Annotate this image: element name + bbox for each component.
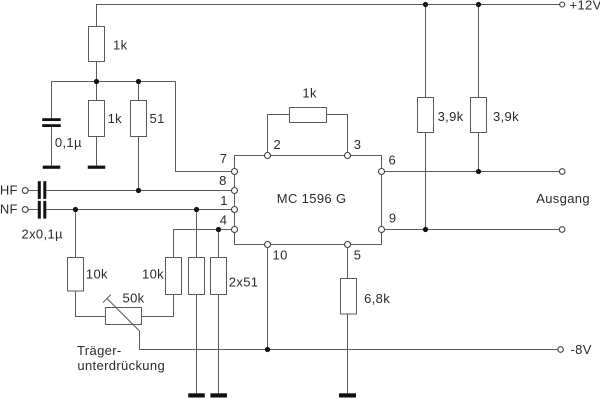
junction dot rail R12 — [476, 2, 481, 7]
svg-text:Ausgang: Ausgang — [536, 191, 590, 206]
svg-text:HF: HF — [0, 182, 18, 197]
wire R6 to ground — [196, 295, 198, 394]
svg-text:NF: NF — [0, 201, 18, 216]
resistor R7 51 — [211, 258, 227, 295]
svg-text:50k: 50k — [123, 291, 145, 306]
svg-text:51: 51 — [150, 111, 165, 126]
wire C3 to pin 1 — [46, 209, 234, 211]
wire C1 to ground — [51, 127, 53, 166]
terminal output pin6 circle — [559, 169, 565, 175]
wire pin 2 riser — [268, 115, 290, 156]
svg-text:-8V: -8V — [571, 342, 592, 357]
wire HF terminal to C2 — [28, 190, 38, 192]
junction dot bias R3 — [136, 79, 141, 84]
wire R4 to pot left — [76, 291, 106, 317]
svg-text:5: 5 — [354, 248, 362, 263]
ground bar under R2 — [88, 166, 106, 169]
svg-text:0,1µ: 0,1µ — [55, 135, 82, 150]
wire pin4 node to R7 — [218, 230, 220, 258]
resistor R11 3,9k — [418, 98, 434, 133]
wire -8V rail — [140, 331, 558, 350]
capacitor C3 coupling — [38, 201, 47, 219]
ground bar under R10 — [339, 393, 356, 397]
resistor R3 51 — [131, 101, 147, 137]
wire bias to C1 — [51, 82, 53, 119]
resistor R10 6,8k — [341, 279, 357, 315]
resistor R5 10k — [166, 258, 182, 295]
svg-text:1k: 1k — [302, 86, 317, 101]
terminal HF circle — [22, 188, 28, 194]
wire pin 9 output line — [382, 229, 560, 231]
junction dot rail R11 — [423, 2, 428, 7]
wire bias to R2 — [96, 82, 98, 102]
junction dot pin6 R12 — [476, 169, 481, 174]
svg-text:+12V: +12V — [570, 0, 600, 13]
wire R10 to ground — [347, 314, 349, 393]
svg-text:3: 3 — [354, 137, 362, 152]
wire R12 to pin 6 line — [478, 133, 480, 172]
wire R3 to HF line — [138, 137, 140, 191]
potentiometer P1 50k body — [106, 308, 142, 325]
wire rail to R12 — [478, 5, 480, 98]
capacitor C1 0,1µ — [42, 118, 61, 127]
svg-text:6: 6 — [389, 153, 397, 168]
pin 4 circle — [232, 227, 238, 233]
wire R2 to ground — [96, 137, 98, 166]
terminal NF circle — [22, 207, 28, 213]
svg-text:2: 2 — [274, 137, 282, 152]
pin 2 circle — [265, 153, 271, 159]
wire rail to R11 — [425, 5, 427, 98]
junction dot NF R6 — [194, 207, 199, 212]
wire pin 10 to -8V rail — [267, 245, 269, 350]
svg-text:7: 7 — [220, 151, 228, 166]
junction dot pin4 R7 — [216, 227, 221, 232]
svg-text:3,9k: 3,9k — [438, 109, 464, 124]
wire R7 to ground — [218, 295, 220, 394]
svg-text:10: 10 — [273, 248, 288, 263]
wire R1 to bias node — [96, 62, 98, 82]
svg-text:6,8k: 6,8k — [364, 291, 390, 306]
pin 6 circle — [379, 169, 385, 175]
svg-text:Träger-: Träger- — [77, 343, 122, 358]
wire pot right to R5 — [142, 295, 174, 317]
svg-text:1: 1 — [220, 193, 228, 208]
pin 8 circle — [232, 188, 238, 194]
wire bias row — [52, 81, 176, 83]
wire +12V rail — [97, 5, 560, 27]
pin 5 circle — [345, 242, 351, 248]
wire pin 5 to R10 — [347, 245, 349, 279]
pin 7 circle — [232, 169, 238, 175]
wire bias to R3 — [138, 82, 140, 102]
ground bar under R7 — [210, 393, 227, 397]
pin 9 circle — [379, 227, 385, 233]
wire bias node to pin 7 — [176, 82, 235, 172]
junction dot bias R2 — [94, 79, 99, 84]
junction dot NF R4 — [73, 207, 78, 212]
wire NF terminal to C3 — [28, 209, 38, 211]
svg-text:MC 1596 G: MC 1596 G — [277, 191, 347, 206]
svg-text:1k: 1k — [108, 111, 123, 126]
wire C2 to pin 8 — [46, 190, 234, 192]
pin 1 circle — [232, 207, 238, 213]
junction dot HF R3 — [136, 188, 141, 193]
resistor R2 1k — [89, 101, 105, 137]
resistor R4 10k — [68, 258, 84, 292]
svg-text:8: 8 — [219, 173, 227, 188]
svg-text:9: 9 — [389, 210, 397, 225]
svg-text:unterdrückung: unterdrückung — [77, 358, 165, 373]
terminal -8V circle — [558, 347, 564, 353]
resistor R8 1k — [290, 108, 327, 123]
wire pin 3 riser — [327, 115, 348, 156]
resistor R12 3,9k — [471, 98, 487, 133]
IC U1 MC1596G body — [235, 156, 382, 245]
junction dot pin10 rail — [265, 347, 270, 352]
svg-text:10k: 10k — [142, 267, 164, 282]
svg-text:4: 4 — [220, 213, 228, 228]
svg-text:2x51: 2x51 — [229, 275, 259, 290]
wire R11 to pin 9 line — [425, 133, 427, 230]
terminal +12V circle — [560, 2, 565, 7]
svg-text:2x0,1µ: 2x0,1µ — [22, 226, 64, 241]
capacitor C2 coupling — [38, 181, 47, 199]
svg-text:3,9k: 3,9k — [493, 109, 519, 124]
wire pin 6 output line — [382, 171, 560, 173]
potentiometer wiper arrow — [103, 295, 139, 331]
wire R5 to pin 4 wire — [174, 230, 235, 258]
wire NF node to R4 — [75, 210, 77, 258]
resistor R1 1k — [89, 27, 105, 62]
svg-text:1k: 1k — [113, 38, 128, 53]
junction dot pin9 R11 — [423, 227, 428, 232]
resistor R6 51 — [189, 258, 205, 295]
svg-text:10k: 10k — [86, 267, 108, 282]
ground bar under C1 — [43, 166, 61, 169]
ground bar under R6 — [188, 393, 205, 397]
pin 10 circle — [265, 242, 271, 248]
terminal output pin9 circle — [559, 227, 565, 233]
wire NF node to R6 — [196, 210, 198, 258]
pin 3 circle — [345, 153, 351, 159]
